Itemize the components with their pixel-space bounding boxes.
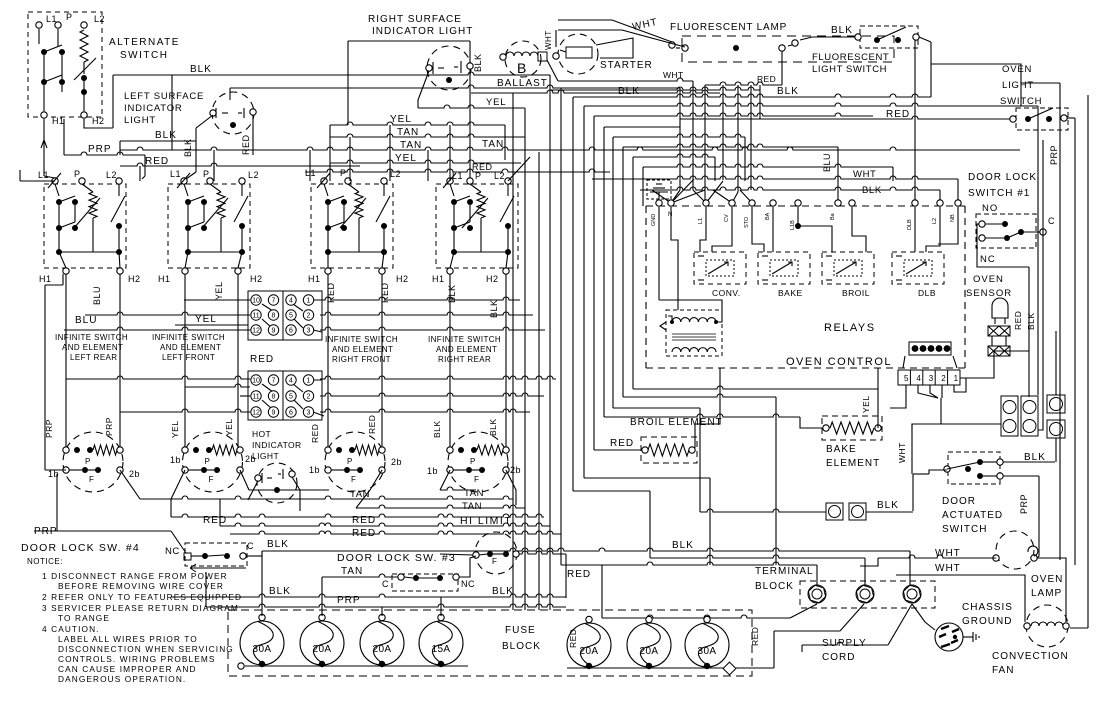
starter: [558, 34, 598, 74]
infinite switch right front box: [311, 173, 393, 274]
svg-text:SWITCH #1: SWITCH #1: [968, 188, 1030, 199]
broil element: [641, 437, 697, 463]
label infinite switch left front: [152, 333, 225, 362]
svg-text:1b: 1b: [170, 455, 181, 465]
svg-text:H2: H2: [396, 274, 409, 284]
svg-text:L1: L1: [46, 14, 57, 24]
label BROIL ELEMENT: [630, 417, 723, 428]
labels RED BLK sensor: [1013, 311, 1036, 330]
svg-text:5: 5: [289, 394, 293, 401]
svg-text:ALTERNATE: ALTERNATE: [109, 37, 180, 48]
label STARTER: [600, 60, 653, 71]
svg-text:H1: H1: [308, 274, 321, 284]
svg-text:RED: RED: [757, 74, 776, 84]
wire bus y97 BLK: [573, 86, 931, 491]
svg-text:INFINITE SWITCH: INFINITE SWITCH: [152, 333, 225, 342]
terminal block bolt 1: [808, 585, 825, 603]
label RED fuse right: [750, 627, 760, 646]
svg-text:CHASSIS: CHASSIS: [962, 602, 1013, 613]
wire YEL lower: [330, 153, 521, 164]
wire pin drops: [140, 125, 450, 181]
label RED broil: [610, 438, 634, 449]
wire bus y157: [633, 154, 715, 389]
left indicator wiring: [120, 115, 253, 179]
svg-text:FAN: FAN: [992, 665, 1014, 676]
svg-text:H1: H1: [39, 274, 52, 284]
svg-text:L2: L2: [106, 170, 117, 180]
wire bus y83 BLK: [1021, 82, 1060, 84]
svg-text:INFINITE SWITCH: INFINITE SWITCH: [325, 335, 398, 344]
surface element left rear: [63, 432, 123, 492]
wire H drops to elements: [66, 274, 506, 450]
label BLK squares: [877, 500, 899, 511]
svg-text:P: P: [347, 457, 353, 466]
svg-text:CONVECTION: CONVECTION: [992, 651, 1069, 662]
oven control output connector: [909, 342, 951, 355]
wire bus y93: [471, 88, 720, 565]
svg-text:BEFORE REMOVING WIRE COVER: BEFORE REMOVING WIRE COVER: [58, 581, 224, 591]
svg-text:BLOCK: BLOCK: [502, 641, 541, 652]
svg-text:BA: BA: [765, 212, 771, 220]
svg-text:WHT: WHT: [663, 70, 684, 80]
svg-text:P: P: [85, 457, 91, 466]
infinite switch left front box: [168, 173, 250, 274]
svg-text:LEFT SURFACE: LEFT SURFACE: [124, 91, 204, 102]
svg-text:DOOR LOCK SW. #3: DOOR LOCK SW. #3: [337, 552, 456, 564]
wire YEL row: [175, 314, 248, 325]
door lock switch 4: [185, 543, 247, 566]
svg-text:F: F: [351, 475, 356, 484]
svg-text:2: 2: [941, 374, 946, 383]
svg-text:2: 2: [307, 313, 311, 320]
wire TAN upper2: [120, 139, 1020, 151]
alternate switch terminals L1 P L2: [36, 12, 105, 28]
svg-text:RED: RED: [886, 109, 910, 120]
wire TAN upper1: [330, 127, 525, 138]
svg-text:H1: H1: [52, 116, 65, 126]
oven lamp wires: [860, 555, 1066, 622]
svg-text:CONV.: CONV.: [712, 288, 741, 298]
svg-text:SWITCH: SWITCH: [942, 524, 987, 535]
label infinite switch right rear: [428, 335, 501, 364]
svg-text:STO: STO: [744, 216, 750, 228]
wire bus y116: [594, 113, 873, 450]
svg-text:20A: 20A: [580, 646, 599, 657]
wire BLK top bus: [113, 64, 550, 128]
svg-text:BLK: BLK: [1024, 452, 1046, 463]
relay DLB: [892, 252, 944, 284]
wire center verticals long: [513, 93, 525, 610]
svg-text:YEL: YEL: [170, 420, 180, 438]
wire L1 feeds top: [20, 170, 55, 181]
svg-text:LIGHT: LIGHT: [252, 451, 279, 461]
svg-text:L1: L1: [170, 169, 181, 179]
svg-text:P: P: [340, 168, 347, 178]
oven sensor connector lower: [988, 346, 1010, 356]
svg-text:L2: L2: [94, 14, 105, 24]
svg-text:4: 4: [289, 378, 293, 385]
svg-text:RED: RED: [250, 354, 274, 365]
svg-text:8: 8: [272, 394, 276, 401]
svg-text:20A: 20A: [313, 644, 332, 655]
svg-text:RED: RED: [352, 515, 376, 526]
svg-text:BROIL: BROIL: [842, 288, 870, 298]
svg-text:9: 9: [272, 328, 276, 335]
supply cord wires: [602, 565, 935, 668]
svg-text:DANGEROUS OPERATION.: DANGEROUS OPERATION.: [58, 674, 186, 684]
wire H1 drop: [41, 119, 64, 178]
svg-text:AND ELEMENT: AND ELEMENT: [332, 345, 393, 354]
svg-text:20A: 20A: [640, 646, 659, 657]
svg-text:L2: L2: [248, 170, 259, 180]
relay output block A: [1001, 396, 1018, 436]
svg-text:AND ELEMENT: AND ELEMENT: [160, 343, 221, 352]
svg-text:RED: RED: [568, 629, 578, 648]
svg-text:TAN: TAN: [341, 566, 363, 577]
alternate switch box: [28, 12, 102, 117]
element right rear labels: [427, 465, 521, 512]
svg-text:BLK: BLK: [672, 540, 694, 551]
oven sensor connector upper: [988, 326, 1010, 336]
alternate switch resistor: [80, 30, 88, 62]
wire RED upper: [305, 162, 610, 172]
svg-text:DOOR LOCK SW. #4: DOOR LOCK SW. #4: [21, 542, 140, 554]
svg-text:RELAYS: RELAYS: [824, 322, 876, 334]
label infinite switch right front: [325, 335, 398, 364]
svg-text:TAN: TAN: [397, 127, 419, 138]
svg-text:30A: 30A: [698, 646, 717, 657]
svg-text:BLK: BLK: [618, 86, 640, 97]
svg-text:L1B: L1B: [790, 220, 796, 230]
svg-text:H1: H1: [432, 274, 445, 284]
svg-text:SENSOR: SENSOR: [966, 288, 1012, 299]
label NOTICE: [27, 557, 63, 566]
label infinite switch left rear: [55, 333, 128, 362]
wire vertical drops into nest: [693, 40, 915, 203]
svg-text:BLOCK: BLOCK: [755, 581, 794, 592]
label CHASSIS GROUND: [962, 602, 1013, 627]
output block wires: [890, 331, 1056, 462]
svg-text:YEL: YEL: [214, 281, 224, 300]
label FLUORESCENT LIGHT SWITCH: [812, 52, 889, 75]
svg-text:12: 12: [252, 328, 260, 335]
svg-text:NC: NC: [980, 254, 996, 265]
svg-text:FLUORESCENT: FLUORESCENT: [812, 52, 889, 63]
svg-text:NC: NC: [461, 579, 475, 589]
svg-text:BAKE: BAKE: [826, 444, 857, 455]
fan wires: [1070, 627, 1088, 629]
svg-text:C: C: [1048, 216, 1055, 226]
svg-text:H2: H2: [250, 274, 263, 284]
svg-text:YEL: YEL: [486, 97, 506, 108]
oven control pin labels: [651, 212, 956, 230]
wire block1 right rows: [320, 297, 545, 330]
svg-text:BLK: BLK: [492, 586, 514, 597]
svg-text:OVEN CONTROL: OVEN CONTROL: [786, 356, 892, 368]
svg-text:INDICATOR LIGHT: INDICATOR LIGHT: [372, 26, 473, 37]
right indicator wiring: [172, 41, 539, 610]
svg-text:LEFT REAR: LEFT REAR: [70, 353, 117, 362]
svg-text:FUSE: FUSE: [505, 625, 536, 636]
label HOT INDICATOR LIGHT: [252, 429, 302, 461]
oven control pin boxes 5 4 3 2 1: [898, 370, 960, 385]
svg-text:1: 1: [307, 298, 311, 305]
svg-text:BLK: BLK: [269, 586, 291, 597]
svg-text:C: C: [382, 579, 389, 589]
label RED fuse left: [568, 629, 578, 648]
svg-text:1b: 1b: [427, 466, 438, 476]
element right front labels: [309, 457, 402, 500]
wire left verticals: [45, 274, 66, 470]
wire WHT vertical: [897, 424, 912, 474]
svg-text:2b: 2b: [129, 469, 140, 479]
svg-text:C: C: [247, 541, 254, 551]
svg-text:WHT: WHT: [897, 442, 907, 463]
bake element wires: [604, 368, 878, 512]
svg-text:DOOR LOCK: DOOR LOCK: [968, 172, 1037, 183]
svg-text:7: 7: [272, 378, 276, 385]
terminal block bolt 3: [903, 585, 920, 603]
label DOOR LOCK SWITCH #1: [968, 172, 1037, 199]
svg-text:LAMP: LAMP: [1031, 588, 1062, 599]
label WHT slanted: [631, 17, 659, 33]
wire bus y190 BLK: [640, 185, 940, 203]
svg-text:CORD: CORD: [822, 652, 855, 663]
infinite switch left rear box: [44, 173, 126, 274]
label YEL bake: [861, 395, 871, 413]
fuse 15A: [419, 621, 463, 665]
label RIGHT SURFACE INDICATOR LIGHT: [368, 14, 473, 37]
hi limit wires: [322, 551, 566, 598]
fuse 30A left: [240, 621, 284, 665]
ballast wires: [547, 60, 693, 81]
svg-text:F: F: [492, 557, 497, 566]
fuse 20A third: [360, 621, 404, 665]
svg-text:INDICATOR: INDICATOR: [124, 103, 183, 114]
wire BLU row: [75, 312, 250, 326]
svg-text:9: 9: [272, 410, 276, 417]
svg-text:RED: RED: [352, 528, 376, 539]
svg-text:6: 6: [289, 328, 293, 335]
svg-text:P: P: [470, 457, 476, 466]
starter box wires: [544, 20, 685, 58]
svg-text:1: 1: [307, 378, 311, 385]
svg-text:B: B: [517, 60, 527, 76]
label BLK fluor switch: [831, 25, 853, 36]
wire box under indicator: [229, 88, 231, 100]
svg-text:CV: CV: [724, 214, 730, 222]
svg-text:BLK: BLK: [1026, 312, 1036, 330]
connector block 2: [248, 371, 322, 420]
fluorescent lamp: [682, 36, 894, 62]
fuse 20A second: [300, 621, 344, 665]
svg-text:F: F: [474, 475, 479, 484]
sw4 wires: [34, 474, 289, 556]
svg-text:11: 11: [252, 394, 259, 401]
svg-text:3: 3: [929, 374, 934, 383]
label FLUORESCENT LAMP: [670, 22, 787, 33]
label PRP bottom left: [34, 526, 58, 537]
svg-text:NOTICE:: NOTICE:: [27, 557, 63, 566]
wire bus y106: [584, 86, 1038, 478]
svg-text:TAN: TAN: [400, 140, 422, 151]
wire right verticals long: [1060, 83, 1088, 628]
svg-text:BLK: BLK: [267, 539, 289, 550]
svg-text:3: 3: [307, 328, 311, 335]
oven sensor: [992, 298, 1008, 318]
svg-text:L1: L1: [38, 170, 49, 180]
svg-text:2b: 2b: [510, 465, 521, 475]
svg-text:RED: RED: [1013, 311, 1023, 330]
svg-text:GROUND: GROUND: [962, 616, 1012, 627]
left surface indicator light: [212, 92, 254, 134]
svg-text:BLU: BLU: [75, 315, 97, 326]
svg-text:4: 4: [916, 374, 921, 383]
label OVEN SENSOR: [966, 274, 1012, 299]
svg-text:4: 4: [289, 298, 293, 305]
svg-text:LEFT FRONT: LEFT FRONT: [162, 353, 215, 362]
svg-text:LIGHT: LIGHT: [124, 115, 156, 126]
alternate switch H1 H2 terminals: [41, 112, 105, 126]
door lock switch 1 wires: [977, 224, 1029, 351]
svg-text:OVEN: OVEN: [1031, 574, 1063, 585]
door actuated switch wires: [913, 462, 1055, 558]
svg-text:RIGHT SURFACE: RIGHT SURFACE: [368, 14, 462, 25]
svg-text:RED: RED: [610, 438, 634, 449]
connector block 1: [248, 291, 322, 340]
svg-text:BLK: BLK: [488, 418, 498, 436]
svg-text:DOOR: DOOR: [942, 496, 976, 507]
label NC sw4: [165, 546, 180, 557]
svg-text:OVEN: OVEN: [973, 274, 1004, 285]
svg-text:8: 8: [272, 313, 276, 320]
svg-text:LIGHT SWITCH: LIGHT SWITCH: [812, 64, 887, 75]
door actuated switch: [948, 452, 1000, 484]
infinite switch left front pin labels: [158, 169, 263, 284]
svg-text:RED: RED: [367, 415, 377, 434]
svg-text:DLB: DLB: [907, 219, 913, 230]
wire bus y179 WHT: [592, 169, 958, 203]
terminal block bolt 2: [856, 585, 873, 603]
svg-text:15A: 15A: [432, 644, 451, 655]
wire block2 right rows: [320, 376, 556, 412]
svg-text:F: F: [209, 475, 214, 484]
svg-text:LIGHT: LIGHT: [1002, 80, 1034, 91]
relay CONV: [694, 252, 746, 284]
wire bus y147: [623, 144, 838, 397]
svg-text:P: P: [203, 169, 210, 179]
label DOOR LOCK SW #3: [337, 552, 456, 564]
terminal block: [800, 581, 935, 608]
svg-text:BLK: BLK: [432, 420, 442, 438]
svg-text:INDICATOR: INDICATOR: [252, 440, 302, 450]
label NO: [982, 203, 998, 214]
door lock switch 3: [392, 574, 458, 591]
svg-text:TO RANGE: TO RANGE: [58, 613, 110, 623]
labels vertical elements wires: [44, 281, 499, 443]
svg-text:INFINITE SWITCH: INFINITE SWITCH: [428, 335, 501, 344]
relay BROIL: [822, 252, 874, 284]
svg-text:OVEN: OVEN: [1002, 64, 1032, 75]
svg-text:P: P: [205, 457, 211, 466]
relay output square C: [1047, 395, 1065, 413]
wire block2 left rows: [66, 376, 250, 412]
label OVEN CONTROL: [786, 356, 892, 368]
svg-text:5: 5: [289, 313, 293, 320]
svg-text:BLU: BLU: [92, 286, 102, 305]
ballast: [505, 41, 541, 77]
wire bus y90: [550, 51, 782, 610]
svg-text:1 DISCONNECT RANGE FROM POWE: 1 DISCONNECT RANGE FROM POWER: [42, 571, 228, 581]
fuse bottom bus: [238, 662, 736, 675]
label TERMINAL BLOCK: [755, 566, 814, 592]
relay BAKE: [758, 252, 810, 284]
svg-text:YEL: YEL: [390, 114, 412, 125]
svg-text:20A: 20A: [373, 644, 392, 655]
svg-text:3: 3: [307, 410, 311, 417]
fuse 20A sixth: [627, 623, 671, 667]
label LEFT SURFACE INDICATOR LIGHT: [124, 91, 204, 126]
wire element switch links: [120, 470, 561, 539]
svg-text:CONTROLS. WIRING PROBLEMS: CONTROLS. WIRING PROBLEMS: [58, 654, 216, 664]
svg-text:RED: RED: [241, 134, 251, 155]
svg-text:H1: H1: [158, 274, 171, 284]
svg-text:STARTER: STARTER: [600, 60, 653, 71]
svg-text:RIGHT REAR: RIGHT REAR: [438, 355, 491, 364]
wire H2 to BLK bus: [84, 119, 113, 128]
wire YEL upper: [330, 114, 505, 181]
svg-text:BLK: BLK: [183, 138, 193, 157]
svg-text:PRP: PRP: [1019, 494, 1029, 514]
svg-text:1: 1: [954, 374, 959, 383]
wire PRP bottom: [171, 572, 566, 616]
svg-text:F: F: [89, 475, 94, 484]
wire block1 left rows: [64, 300, 250, 330]
svg-text:BALLAST: BALLAST: [497, 78, 548, 89]
label ALTERNATE SWITCH: [109, 37, 180, 61]
svg-text:WHT: WHT: [853, 169, 876, 180]
svg-text:11: 11: [252, 313, 259, 320]
svg-text:BLK: BLK: [473, 53, 483, 72]
svg-text:WHT: WHT: [935, 548, 961, 559]
element left rear labels: [48, 469, 140, 479]
svg-text:2: 2: [307, 394, 311, 401]
lamp holder square 2: [849, 503, 866, 520]
notice text: [42, 571, 242, 684]
svg-text:LABEL ALL WIRES PRIOR TO: LABEL ALL WIRES PRIOR TO: [58, 634, 198, 644]
svg-text:BLU: BLU: [822, 153, 832, 172]
svg-text:3 SERVICER PLEASE RETURN DIA: 3 SERVICER PLEASE RETURN DIAGRAM: [42, 603, 239, 613]
svg-text:1b: 1b: [309, 465, 320, 475]
relay internal wires: [659, 207, 958, 322]
svg-text:SWITCH: SWITCH: [120, 50, 168, 61]
svg-text:7: 7: [272, 298, 276, 305]
surface element right rear: [448, 432, 508, 492]
svg-text:AND ELEMENT: AND ELEMENT: [62, 343, 123, 352]
svg-text:H2: H2: [486, 274, 499, 284]
svg-text:HOT: HOT: [252, 429, 271, 439]
svg-text:YEL: YEL: [861, 395, 871, 413]
fuse 30A right: [685, 623, 729, 667]
svg-text:BLK: BLK: [877, 500, 899, 511]
label HI LIMIT: [460, 515, 512, 527]
svg-text:H2: H2: [128, 274, 141, 284]
svg-text:N: N: [668, 212, 673, 218]
oven light switch wires: [680, 109, 1075, 120]
svg-text:YEL: YEL: [395, 153, 417, 164]
broil element wires: [594, 449, 641, 451]
svg-text:FLUORESCENT LAMP: FLUORESCENT LAMP: [670, 22, 787, 33]
